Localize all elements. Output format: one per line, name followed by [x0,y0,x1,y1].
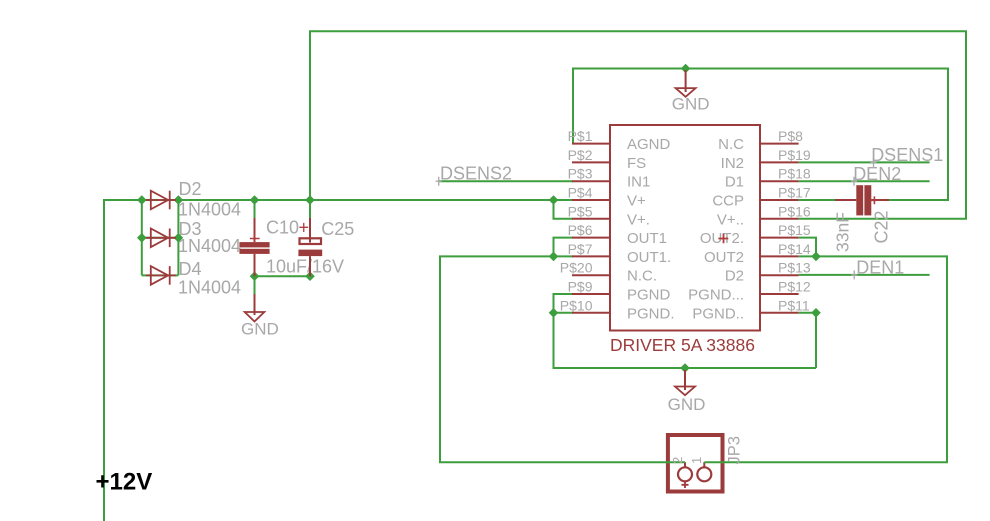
svg-text:GND: GND [672,95,710,114]
svg-text:DEN2: DEN2 [853,164,901,184]
wire V+ horizontal rail to P$4 [178,199,553,201]
svg-text:P$10: P$10 [560,297,593,313]
svg-text:P$7: P$7 [568,241,593,257]
pin P$1 [572,143,610,145]
svg-text:D2: D2 [179,179,202,199]
wire C10 top lead [254,200,256,220]
diode D4 [146,266,176,285]
svg-text:V+: V+ [627,193,646,210]
svg-text:1N4004: 1N4004 [178,278,241,298]
node D2 anode junction [137,195,147,205]
svg-text:N.C.: N.C. [627,268,657,285]
svg-text:AGND: AGND [627,136,671,153]
svg-text:P$13: P$13 [778,260,811,276]
capacitor C22 [835,185,889,215]
svg-text:+12V: +12V [96,469,153,496]
svg-text:C25: C25 [321,219,354,239]
ground GND top [676,70,696,97]
svg-text:JP3: JP3 [726,436,744,464]
svg-text:D1: D1 [725,174,744,191]
wire P$4 stub connection [554,199,574,201]
svg-text:P$9: P$9 [568,279,593,295]
wire P$15 P$14 tie [799,238,816,257]
IC right pad names [778,128,811,313]
svg-text:C22: C22 [871,210,891,243]
pin P$13 [760,274,799,276]
wire DSENS1 net [799,161,930,163]
svg-text:P$19: P$19 [778,147,811,163]
wire diode anode bus vertical [141,200,143,275]
pin P$18 [760,180,799,182]
wire P$4 to P$5 drop [554,200,574,219]
pin P$2 [572,161,610,163]
svg-text:N.C: N.C [718,136,744,153]
wire D3 row horizontal [142,237,179,239]
svg-text:+: + [299,218,310,238]
wire P$10 down to pgnd rail [554,313,817,368]
capacitor C10 [239,218,269,276]
node D3 cathode junction [174,233,184,243]
pin P$11 [760,312,799,314]
wire diode cathode bus vertical [177,200,179,275]
svg-text:DRIVER 5A 33886: DRIVER 5A 33886 [610,335,755,355]
wire C25 top lead [309,200,311,220]
wire top outer V+ rail [310,31,966,219]
wire D2 row horizontal through diode [142,199,179,201]
node P$11 junction [811,308,821,318]
wire DEN1 net [799,274,930,276]
wire C22 right to gnd rail [889,199,948,201]
connector JP3 [668,435,723,492]
svg-text:PGND.: PGND. [627,305,675,322]
svg-text:IN2: IN2 [721,155,744,172]
wire C25 bottom lead stub [309,270,311,276]
ground GND below C10 [245,294,265,322]
pin P$5 [572,218,610,220]
wire C10 bottom to GND [254,276,256,295]
node C25 top junction [305,195,315,205]
pin P$10 [572,312,610,314]
node P$4 junction [549,195,559,205]
svg-text:OUT1: OUT1 [627,230,667,247]
svg-text:P$2: P$2 [568,147,593,163]
svg-text:V+..: V+.. [717,211,744,228]
svg-text:D2: D2 [725,268,744,285]
ground GND bottom [675,370,695,395]
svg-text:P$11: P$11 [778,297,810,313]
pin P$3 [572,180,610,182]
op-amp U1 right pin stubs [760,144,799,313]
svg-text:1N4004: 1N4004 [178,199,241,219]
pin P$17 [760,199,799,201]
svg-text:P$18: P$18 [778,166,811,182]
wire DEN2 net [799,180,930,182]
svg-text:P$4: P$4 [568,185,593,201]
node P$10 junction [549,308,559,318]
svg-text:CCP: CCP [712,193,744,210]
diode D3 [146,229,176,248]
svg-text:33nF: 33nF [833,212,853,252]
IC right pin names [688,136,744,322]
pin P$9 [572,293,610,295]
wire P$17 to C22 left [799,199,835,201]
wire P$9 P$10 tie [554,294,574,313]
pin P$19 [760,161,799,163]
pin P$14 [760,255,799,257]
svg-text:P$15: P$15 [778,222,811,238]
svg-text:D4: D4 [179,259,202,279]
op-amp U1 DRIVER 5A 33886 IC body [610,125,760,331]
wire DSENS2 net [439,180,573,182]
svg-text:DEN1: DEN1 [856,258,904,278]
wire bottom gnd tap [684,368,686,370]
svg-text:P$12: P$12 [778,279,811,295]
svg-text:1N4004: 1N4004 [178,236,241,256]
svg-text:FS: FS [627,155,646,172]
svg-text:OUT1.: OUT1. [627,249,671,266]
wire P$6 P$7 tie [554,238,574,257]
svg-text:P$20: P$20 [560,260,593,276]
svg-text:DSENS2: DSENS2 [440,164,512,184]
IC left pad names [560,128,593,313]
node C10 top junction [250,195,260,205]
op-amp U1 left pin stubs [572,144,610,313]
wire P$11 tie to pgnd rail [799,313,816,368]
wire C10 C25 bottom junction [255,275,311,277]
svg-text:PGND: PGND [627,287,671,304]
svg-text:C10: C10 [266,218,299,238]
svg-text:P$3: P$3 [568,166,593,182]
wire AGND P$1 to top gnd rail [573,69,948,201]
svg-text:P$16: P$16 [778,203,811,219]
node bottom GND junction [680,363,690,373]
wire +12V vertical bus left [104,200,142,521]
pin P$7 [572,255,610,257]
svg-text:1: 1 [689,457,704,464]
wire P$14 to JP3 right rail [704,256,947,462]
node P$14 junction [811,252,821,262]
svg-text:P$14: P$14 [778,241,811,257]
svg-text:GND: GND [668,395,706,414]
pin P$16 [760,218,799,220]
diode D2 [146,191,176,210]
svg-text:PGND...: PGND... [688,287,744,304]
svg-text:P$8: P$8 [778,128,803,144]
pin P$6 [572,237,610,239]
svg-text:IN1: IN1 [627,174,650,191]
pin P$15 [760,237,799,239]
node D3 anode junction [137,233,147,243]
net label origin crosses [436,158,877,280]
node C10 bottom junction [250,271,260,281]
IC left pin names [627,136,675,322]
pin P$20 [572,274,610,276]
pin P$12 [760,293,799,295]
node D2 cathode junction [174,195,184,205]
OUT2 plus mark [718,234,728,243]
svg-text:GND: GND [241,320,279,339]
svg-text:PGND..: PGND.. [692,305,744,322]
svg-text:P$5: P$5 [568,203,593,219]
svg-text:10uF/16V: 10uF/16V [266,257,344,277]
svg-text:DSENS1: DSENS1 [871,145,943,165]
capacitor C25 [298,218,322,276]
svg-text:P$1: P$1 [568,128,593,144]
svg-text:2: 2 [670,457,685,464]
svg-text:P$6: P$6 [568,222,593,238]
pin P$4 [572,199,610,201]
svg-text:V+.: V+. [627,211,650,228]
node C25 bottom junction [305,271,315,281]
svg-text:OUT2: OUT2 [704,249,744,266]
node P$7 junction [549,252,559,262]
pin P$8 [760,143,799,145]
wire P$7 to JP3 left rail [440,256,685,462]
wire D4 row horizontal [142,274,179,276]
svg-text:P$17: P$17 [778,185,811,201]
node top GND junction [681,64,691,74]
